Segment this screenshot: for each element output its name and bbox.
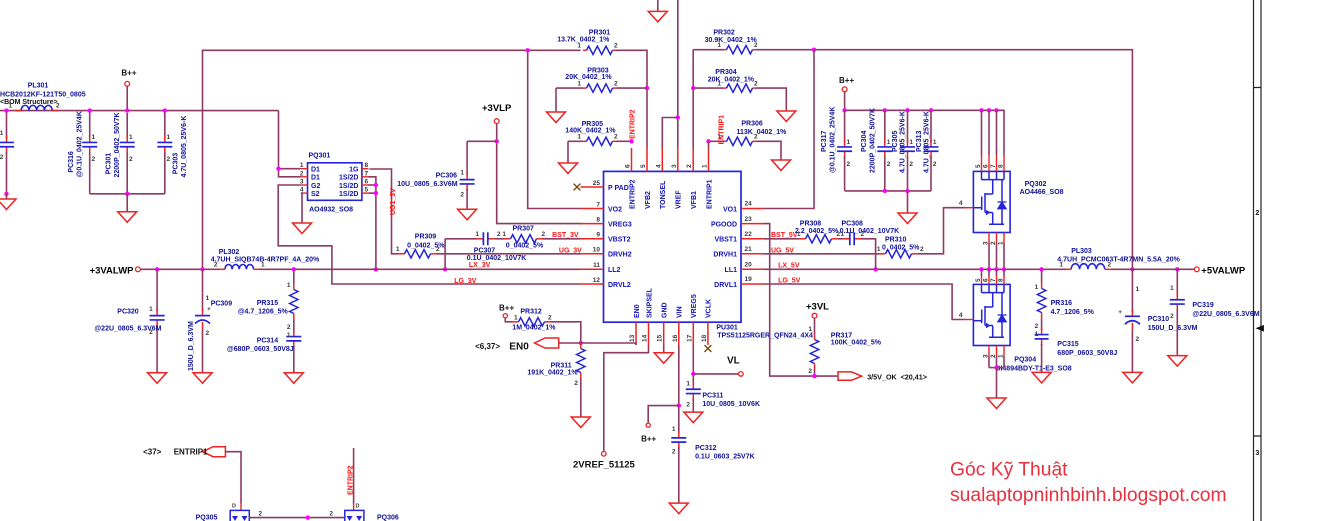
ground PR311: [571, 417, 590, 428]
svg-text:15: 15: [657, 334, 664, 342]
svg-text:VCLK: VCLK: [706, 299, 713, 318]
capacitor PC305: [907, 110, 909, 142]
svg-text:1: 1: [167, 134, 171, 141]
svg-text:1: 1: [686, 381, 690, 388]
svg-text:@0.1U_0402_25V4K: @0.1U_0402_25V4K: [77, 111, 84, 177]
connector ENTRIP1 arrow: [203, 447, 226, 457]
svg-text:PR306: PR306: [741, 121, 763, 128]
svg-text:VREF: VREF: [676, 190, 683, 209]
svg-text:B++: B++: [839, 76, 854, 85]
ground PC314: [284, 373, 303, 384]
svg-text:LX_5V: LX_5V: [778, 263, 800, 270]
svg-text:21: 21: [745, 246, 753, 253]
node label 2VREF_51125: [602, 452, 607, 457]
svg-text:2: 2: [497, 231, 501, 238]
node PQ304 source: [994, 365, 998, 369]
resistor PR306: [723, 140, 727, 142]
svg-text:PC319: PC319: [1192, 302, 1214, 309]
wire VIN net: [678, 345, 680, 433]
pin 18 no-connect X: [705, 345, 712, 352]
IC top pin stubs: [631, 148, 633, 171]
node VFB1: [691, 86, 695, 90]
svg-text:PC305: PC305: [892, 130, 899, 152]
svg-text:PQ302: PQ302: [1025, 181, 1047, 188]
svg-text:5: 5: [365, 187, 369, 194]
svg-text:2: 2: [436, 246, 440, 253]
capacitor PC315: [1041, 319, 1043, 330]
wire PR304 pin2 to ground: [756, 88, 786, 111]
svg-text:ENTRIP2: ENTRIP2: [629, 109, 636, 139]
svg-text:3: 3: [671, 164, 678, 168]
svg-text:GND: GND: [662, 302, 669, 318]
svg-text:PC315: PC315: [1057, 341, 1079, 348]
resistor PR316: [1041, 269, 1043, 282]
svg-text:LX_3V: LX_3V: [469, 262, 491, 269]
capacitor PC301: [126, 113, 128, 138]
svg-text:VBST1: VBST1: [714, 237, 737, 244]
capacitor PC310 polarized: [1131, 269, 1133, 312]
wire PR311 to ground: [580, 378, 582, 417]
svg-text:150U_D_6.3VM: 150U_D_6.3VM: [1148, 325, 1198, 332]
svg-text:PR309: PR309: [415, 233, 437, 240]
svg-text:1: 1: [577, 134, 581, 141]
wire PR307 to VBST2: [543, 238, 581, 240]
svg-text:140K_0402_1%: 140K_0402_1%: [565, 128, 616, 135]
svg-text:UG1_3V: UG1_3V: [390, 188, 397, 215]
svg-text:<20,41>: <20,41>: [901, 372, 927, 381]
ground PQ304: [996, 368, 998, 398]
PQ302 top pin wires: [981, 110, 983, 155]
capacitor PC319: [1176, 269, 1178, 295]
node ENTRIP1: [706, 139, 710, 143]
svg-text:S2: S2: [311, 191, 320, 198]
svg-text:2: 2: [329, 511, 333, 518]
svg-text:UG_3V: UG_3V: [559, 247, 582, 254]
svg-text:1: 1: [287, 332, 291, 339]
svg-text:2: 2: [1035, 323, 1039, 330]
svg-text:ENTRIP1: ENTRIP1: [174, 448, 208, 457]
svg-text:2: 2: [214, 262, 218, 269]
node +3VLP: [495, 139, 499, 143]
svg-text:8: 8: [365, 162, 369, 169]
wire PGOOD to 3/5V_OK: [764, 224, 838, 377]
svg-text:11: 11: [593, 262, 600, 269]
svg-text:PC313: PC313: [916, 130, 923, 152]
svg-text:1: 1: [0, 130, 4, 137]
svg-text:2: 2: [614, 134, 618, 141]
capacitor PC320: [156, 269, 158, 311]
wire PR310 to PQ302 gate: [918, 208, 966, 254]
resistor PR309: [398, 253, 405, 255]
wire S2 to ground: [301, 193, 302, 223]
ground PC310: [1123, 372, 1142, 383]
wire B++ to PQ301 D1: [279, 111, 301, 177]
svg-text:10U_0805_6.3V6M: 10U_0805_6.3V6M: [397, 181, 457, 188]
node PQ301 switch: [374, 183, 378, 187]
svg-text:PR302: PR302: [713, 30, 735, 37]
svg-text:PR307: PR307: [513, 226, 535, 233]
ground PR303: [555, 88, 557, 112]
ground PR305: [567, 141, 569, 163]
svg-text:D: D: [232, 504, 236, 510]
svg-text:1M_0402_1%: 1M_0402_1%: [512, 325, 556, 332]
svg-text:7: 7: [990, 278, 997, 282]
svg-text:4.7_1206_5%: 4.7_1206_5%: [1051, 309, 1095, 316]
svg-text:PR311: PR311: [551, 362, 572, 369]
svg-text:2: 2: [686, 402, 690, 409]
node LL2 bootstrap: [443, 267, 447, 271]
wire PR305 pin2 to ENTRIP2 node: [616, 140, 632, 142]
svg-text:VL: VL: [727, 356, 740, 367]
wire B++ to PR312: [505, 318, 512, 322]
capacitor PC317: [844, 110, 846, 142]
svg-text:0.1U_0402_10V7K: 0.1U_0402_10V7K: [467, 255, 527, 262]
svg-text:1: 1: [808, 326, 812, 333]
resistor PR307: [504, 238, 511, 240]
svg-text:20K_0402_1%: 20K_0402_1%: [565, 74, 612, 81]
wire VFB1 vertical: [692, 50, 694, 148]
node ENTRIP2: [629, 139, 633, 143]
ground PC319: [1168, 356, 1187, 367]
resistor PR311: [580, 343, 582, 349]
svg-text:EN0: EN0: [509, 342, 529, 353]
svg-text:23: 23: [745, 216, 753, 223]
wire ENTRIP1 to pin1: [708, 141, 710, 148]
svg-text:2: 2: [0, 154, 4, 161]
wire PR306 pin2 to ground: [756, 141, 781, 160]
svg-text:PU301: PU301: [716, 325, 738, 332]
ground PQ301 S2: [293, 223, 312, 234]
svg-text:2: 2: [861, 231, 865, 238]
wire PR303 pin2 to VFB2 node: [616, 87, 647, 89]
op-amp-IC PU301 TPS51125 box: [604, 171, 742, 322]
svg-text:2: 2: [129, 156, 133, 163]
svg-text:1: 1: [998, 354, 1005, 358]
svg-text:30.9K_0402_1%: 30.9K_0402_1%: [705, 37, 758, 44]
wire SKIPSEL to 2VREF: [604, 345, 649, 451]
resistor PR317: [814, 318, 816, 334]
svg-text:PL301: PL301: [28, 83, 49, 90]
wire PC308 to LX: [861, 239, 876, 269]
svg-text:2: 2: [990, 354, 997, 358]
svg-text:Góc Kỹ Thuật: Góc Kỹ Thuật: [950, 460, 1068, 481]
wire BST_3V row: [445, 238, 477, 240]
PQ302 gate pin 4: [966, 207, 974, 209]
svg-text:PC312: PC312: [695, 445, 717, 452]
svg-text:7: 7: [990, 164, 997, 168]
svg-text:1: 1: [909, 139, 913, 146]
svg-text:1: 1: [840, 231, 844, 238]
IC left pin stubs: [581, 186, 604, 188]
svg-text:D1: D1: [311, 167, 320, 174]
svg-text:2: 2: [574, 380, 578, 387]
svg-text:8: 8: [998, 164, 1005, 168]
svg-text:100K_0402_5%: 100K_0402_5%: [831, 339, 882, 346]
ground PC320: [148, 373, 167, 384]
resistor PR304: [723, 87, 727, 89]
svg-text:4.7U_0805_25V6-K: 4.7U_0805_25V6-K: [924, 111, 931, 173]
capacitor PC309 polarized: [202, 269, 204, 311]
svg-text:PC304: PC304: [861, 130, 868, 152]
transistor PQ306 box: [345, 510, 364, 521]
svg-text:VREG5: VREG5: [691, 294, 698, 318]
resistor PR301: [583, 49, 587, 51]
wire right cap bank top rail: [845, 110, 1004, 155]
svg-text:2: 2: [933, 161, 937, 168]
wire VO1 sense rail: [693, 49, 723, 51]
svg-text:DRVH1: DRVH1: [713, 252, 737, 259]
svg-text:PC316: PC316: [68, 151, 75, 173]
svg-text:B++: B++: [121, 69, 136, 78]
svg-text:2: 2: [1170, 313, 1174, 320]
svg-text:<6,37>: <6,37>: [475, 342, 500, 351]
svg-text:PR301: PR301: [589, 29, 611, 36]
wire UG_3V from PQ301 gate: [369, 169, 398, 254]
svg-text:VO1: VO1: [723, 206, 737, 213]
svg-text:PC317: PC317: [821, 130, 828, 152]
svg-text:1S/2D: 1S/2D: [339, 175, 358, 182]
capacitor C-left-edge: [6, 111, 8, 139]
svg-text:13.7K_0402_1%: 13.7K_0402_1%: [557, 37, 610, 44]
capacitor PC306: [466, 173, 468, 180]
svg-text:PC311: PC311: [702, 393, 723, 400]
svg-text:14: 14: [642, 334, 649, 342]
svg-text:TPS51125RGER_QFN24_4X4: TPS51125RGER_QFN24_4X4: [717, 332, 813, 339]
wire PC306 branch: [467, 140, 497, 142]
svg-text:PR304: PR304: [715, 69, 737, 76]
svg-text:6: 6: [365, 179, 369, 186]
svg-text:VFB2: VFB2: [645, 191, 652, 209]
svg-text:PC301: PC301: [106, 153, 113, 175]
svg-text:17: 17: [686, 334, 693, 342]
svg-text:PC308: PC308: [842, 220, 864, 227]
capacitor PC307: [477, 238, 484, 240]
svg-text:1: 1: [475, 231, 479, 238]
svg-text:PR316: PR316: [1051, 300, 1073, 307]
svg-text:5: 5: [640, 164, 647, 168]
wire PR304 pin1: [693, 87, 723, 89]
svg-text:PR315: PR315: [257, 300, 279, 307]
PQ304 mosfet symbol: [982, 284, 1005, 337]
wire LG_5V to PQ304 gate: [764, 284, 966, 320]
wire PQ301 switch pins to LX: [369, 177, 376, 269]
svg-text:VO2: VO2: [608, 206, 622, 213]
svg-text:2: 2: [1255, 210, 1259, 217]
svg-text:113K_0402_1%: 113K_0402_1%: [737, 129, 788, 136]
PQ304 bottom pins to ground: [988, 346, 990, 357]
svg-text:4.7U_0805_25V6-K: 4.7U_0805_25V6-K: [900, 111, 907, 173]
svg-text:VFB1: VFB1: [691, 191, 698, 209]
connector 3/5V_OK arrow: [838, 372, 862, 380]
svg-text:+: +: [1118, 309, 1122, 316]
svg-text:DRVH2: DRVH2: [608, 252, 632, 259]
wire VREG5 / VL net: [692, 345, 694, 385]
svg-text:DRVL2: DRVL2: [608, 282, 631, 289]
svg-text:20K_0402_1%: 20K_0402_1%: [708, 77, 755, 84]
capacitor PC303: [164, 111, 166, 139]
svg-text:B++: B++: [499, 304, 514, 313]
svg-text:2: 2: [460, 192, 464, 199]
svg-text:1: 1: [672, 426, 676, 433]
svg-text:2: 2: [614, 43, 618, 50]
svg-text:3: 3: [983, 354, 990, 358]
svg-text:18: 18: [701, 334, 708, 342]
wire PC307 to PR307: [495, 238, 504, 240]
svg-text:1G: 1G: [349, 167, 359, 174]
svg-text:VBST2: VBST2: [608, 237, 631, 244]
wire ENTRIP2 to PQ306: [353, 448, 355, 504]
svg-text:2: 2: [754, 42, 758, 49]
svg-text:2: 2: [1136, 336, 1140, 343]
svg-text:9: 9: [596, 232, 600, 239]
wire EN0 row to pin 13: [559, 343, 636, 345]
svg-text:2.2_0402_5%: 2.2_0402_5%: [795, 228, 839, 235]
ground top center: [657, 0, 659, 11]
svg-text:2: 2: [259, 511, 263, 518]
svg-text:HCB2012KF-121T50_0805: HCB2012KF-121T50_0805: [0, 92, 86, 99]
svg-text:PR310: PR310: [885, 236, 907, 243]
svg-text:BST_3V: BST_3V: [552, 232, 579, 239]
svg-text:5: 5: [975, 278, 982, 282]
svg-text:2: 2: [548, 314, 552, 321]
svg-text:+: +: [207, 306, 211, 313]
svg-text:3/5V_OK: 3/5V_OK: [867, 372, 897, 381]
wire PQ305 to PQ306: [249, 517, 344, 519]
svg-text:191K_0402_1%: 191K_0402_1%: [527, 370, 578, 377]
svg-text:1: 1: [460, 170, 464, 177]
IC bottom pin stubs: [635, 322, 637, 345]
svg-text:G2: G2: [311, 183, 320, 190]
svg-text:25: 25: [593, 180, 601, 187]
resistor PR302: [723, 49, 727, 51]
svg-text:3: 3: [1255, 450, 1259, 457]
ground PC315: [1032, 372, 1051, 383]
node VFB2: [645, 86, 649, 90]
svg-text:D: D: [356, 504, 360, 510]
transistor PQ302 box: [973, 171, 1010, 232]
node EN0: [579, 341, 583, 345]
svg-text:PR312: PR312: [520, 308, 542, 315]
svg-text:PL302: PL302: [219, 249, 240, 256]
svg-text:1: 1: [287, 282, 291, 289]
svg-text:2: 2: [1108, 262, 1112, 269]
svg-text:VREG3: VREG3: [608, 221, 632, 228]
svg-text:@4.7_1206_5%: @4.7_1206_5%: [238, 309, 289, 316]
resistor PR303: [556, 87, 583, 89]
svg-text:1: 1: [933, 139, 937, 146]
junction dots right bank rail: [842, 108, 846, 112]
svg-text:PQ301: PQ301: [309, 153, 331, 160]
svg-text:1: 1: [514, 314, 518, 321]
power label +5VALWP: [1194, 267, 1199, 272]
pin 25 no-connect X: [574, 184, 581, 191]
svg-text:VIN: VIN: [677, 306, 684, 318]
wire VO2 sense net: [203, 50, 581, 269]
wire VREF from sheet top: [677, 0, 679, 148]
svg-text:@680P_0603_50V8J: @680P_0603_50V8J: [227, 346, 294, 353]
resistor PR305: [568, 140, 583, 142]
wire bootstrap vertical LL2: [444, 239, 446, 269]
wire PR301 pin2 to VFB2: [616, 50, 647, 148]
svg-text:680P_0603_50V8J: 680P_0603_50V8J: [1057, 350, 1117, 357]
svg-text:LL2: LL2: [608, 267, 621, 274]
ground PC311: [684, 412, 703, 423]
svg-text:2: 2: [887, 161, 891, 168]
ground right bank: [907, 191, 909, 213]
wire LX_5V output row: [764, 268, 1066, 270]
svg-text:1: 1: [1059, 262, 1063, 269]
resistor PR308: [764, 238, 799, 240]
svg-text:2200P_0402_50V7K: 2200P_0402_50V7K: [870, 108, 877, 173]
node VIN/PC312: [677, 403, 681, 407]
svg-text:7: 7: [596, 201, 600, 208]
svg-text:PC310: PC310: [1148, 316, 1170, 323]
capacitor PC304: [884, 110, 886, 142]
svg-text:10: 10: [593, 247, 601, 254]
svg-text:1: 1: [1035, 284, 1039, 291]
junction dots +3VALWP row: [155, 267, 159, 271]
svg-text:2200P_0402_50V7K: 2200P_0402_50V7K: [114, 112, 121, 177]
svg-text:10U_0805_10V6K: 10U_0805_10V6K: [702, 401, 760, 408]
node left cap / ground: [4, 108, 8, 112]
svg-text:2: 2: [92, 156, 96, 163]
svg-text:PR317: PR317: [831, 332, 853, 339]
capacitor PC312: [678, 431, 680, 438]
svg-text:1: 1: [577, 80, 581, 87]
svg-text:PQ305: PQ305: [196, 514, 218, 521]
node VREF/TONSEL tap: [676, 115, 680, 119]
svg-text:2: 2: [287, 324, 291, 331]
wire B++ to VIN node: [648, 406, 679, 423]
resistor PR310: [764, 253, 879, 255]
svg-text:1: 1: [702, 164, 709, 168]
inductor PL303: [1071, 264, 1105, 270]
svg-text:PQ304: PQ304: [1014, 357, 1036, 364]
wire ENTRIP1 to PQ305: [225, 452, 241, 504]
svg-text:2VREF_51125: 2VREF_51125: [573, 460, 636, 471]
svg-text:4.7UH_PCMC063T-4R7MN_5.5A_20%: 4.7UH_PCMC063T-4R7MN_5.5A_20%: [1057, 257, 1180, 264]
svg-text:1: 1: [8, 103, 12, 110]
svg-text:EN0: EN0: [634, 304, 641, 318]
svg-text:DRVL1: DRVL1: [714, 282, 737, 289]
svg-text:ENTRIP2: ENTRIP2: [347, 465, 354, 495]
svg-text:1: 1: [797, 231, 801, 238]
svg-text:4.7U_0805_25V6-K: 4.7U_0805_25V6-K: [181, 116, 188, 178]
svg-text:PC314: PC314: [257, 338, 279, 345]
svg-text:AO4466_SO8: AO4466_SO8: [1020, 189, 1064, 196]
svg-text:1: 1: [847, 139, 851, 146]
svg-text:2: 2: [542, 231, 546, 238]
svg-text:1S/2D: 1S/2D: [339, 191, 358, 198]
node between PQ305 PQ306: [306, 515, 310, 519]
svg-text:2: 2: [847, 161, 851, 168]
svg-text:2: 2: [614, 80, 618, 87]
wire B++ input rail: [0, 110, 279, 112]
svg-text:PL303: PL303: [1071, 248, 1092, 255]
svg-text:B++: B++: [641, 434, 656, 443]
node VL: [691, 372, 695, 376]
svg-text:PC309: PC309: [211, 301, 233, 308]
svg-text:+5VALWP: +5VALWP: [1201, 265, 1246, 276]
svg-text:6: 6: [983, 278, 990, 282]
wire TONSEL jog: [662, 118, 678, 149]
svg-text:2: 2: [754, 134, 758, 141]
ground B++ bank: [126, 194, 128, 212]
ground PC306: [458, 209, 477, 220]
svg-text:1: 1: [998, 241, 1005, 245]
wire PL302 to LL2: [260, 268, 581, 270]
svg-text:ENTRIP1: ENTRIP1: [706, 179, 713, 209]
